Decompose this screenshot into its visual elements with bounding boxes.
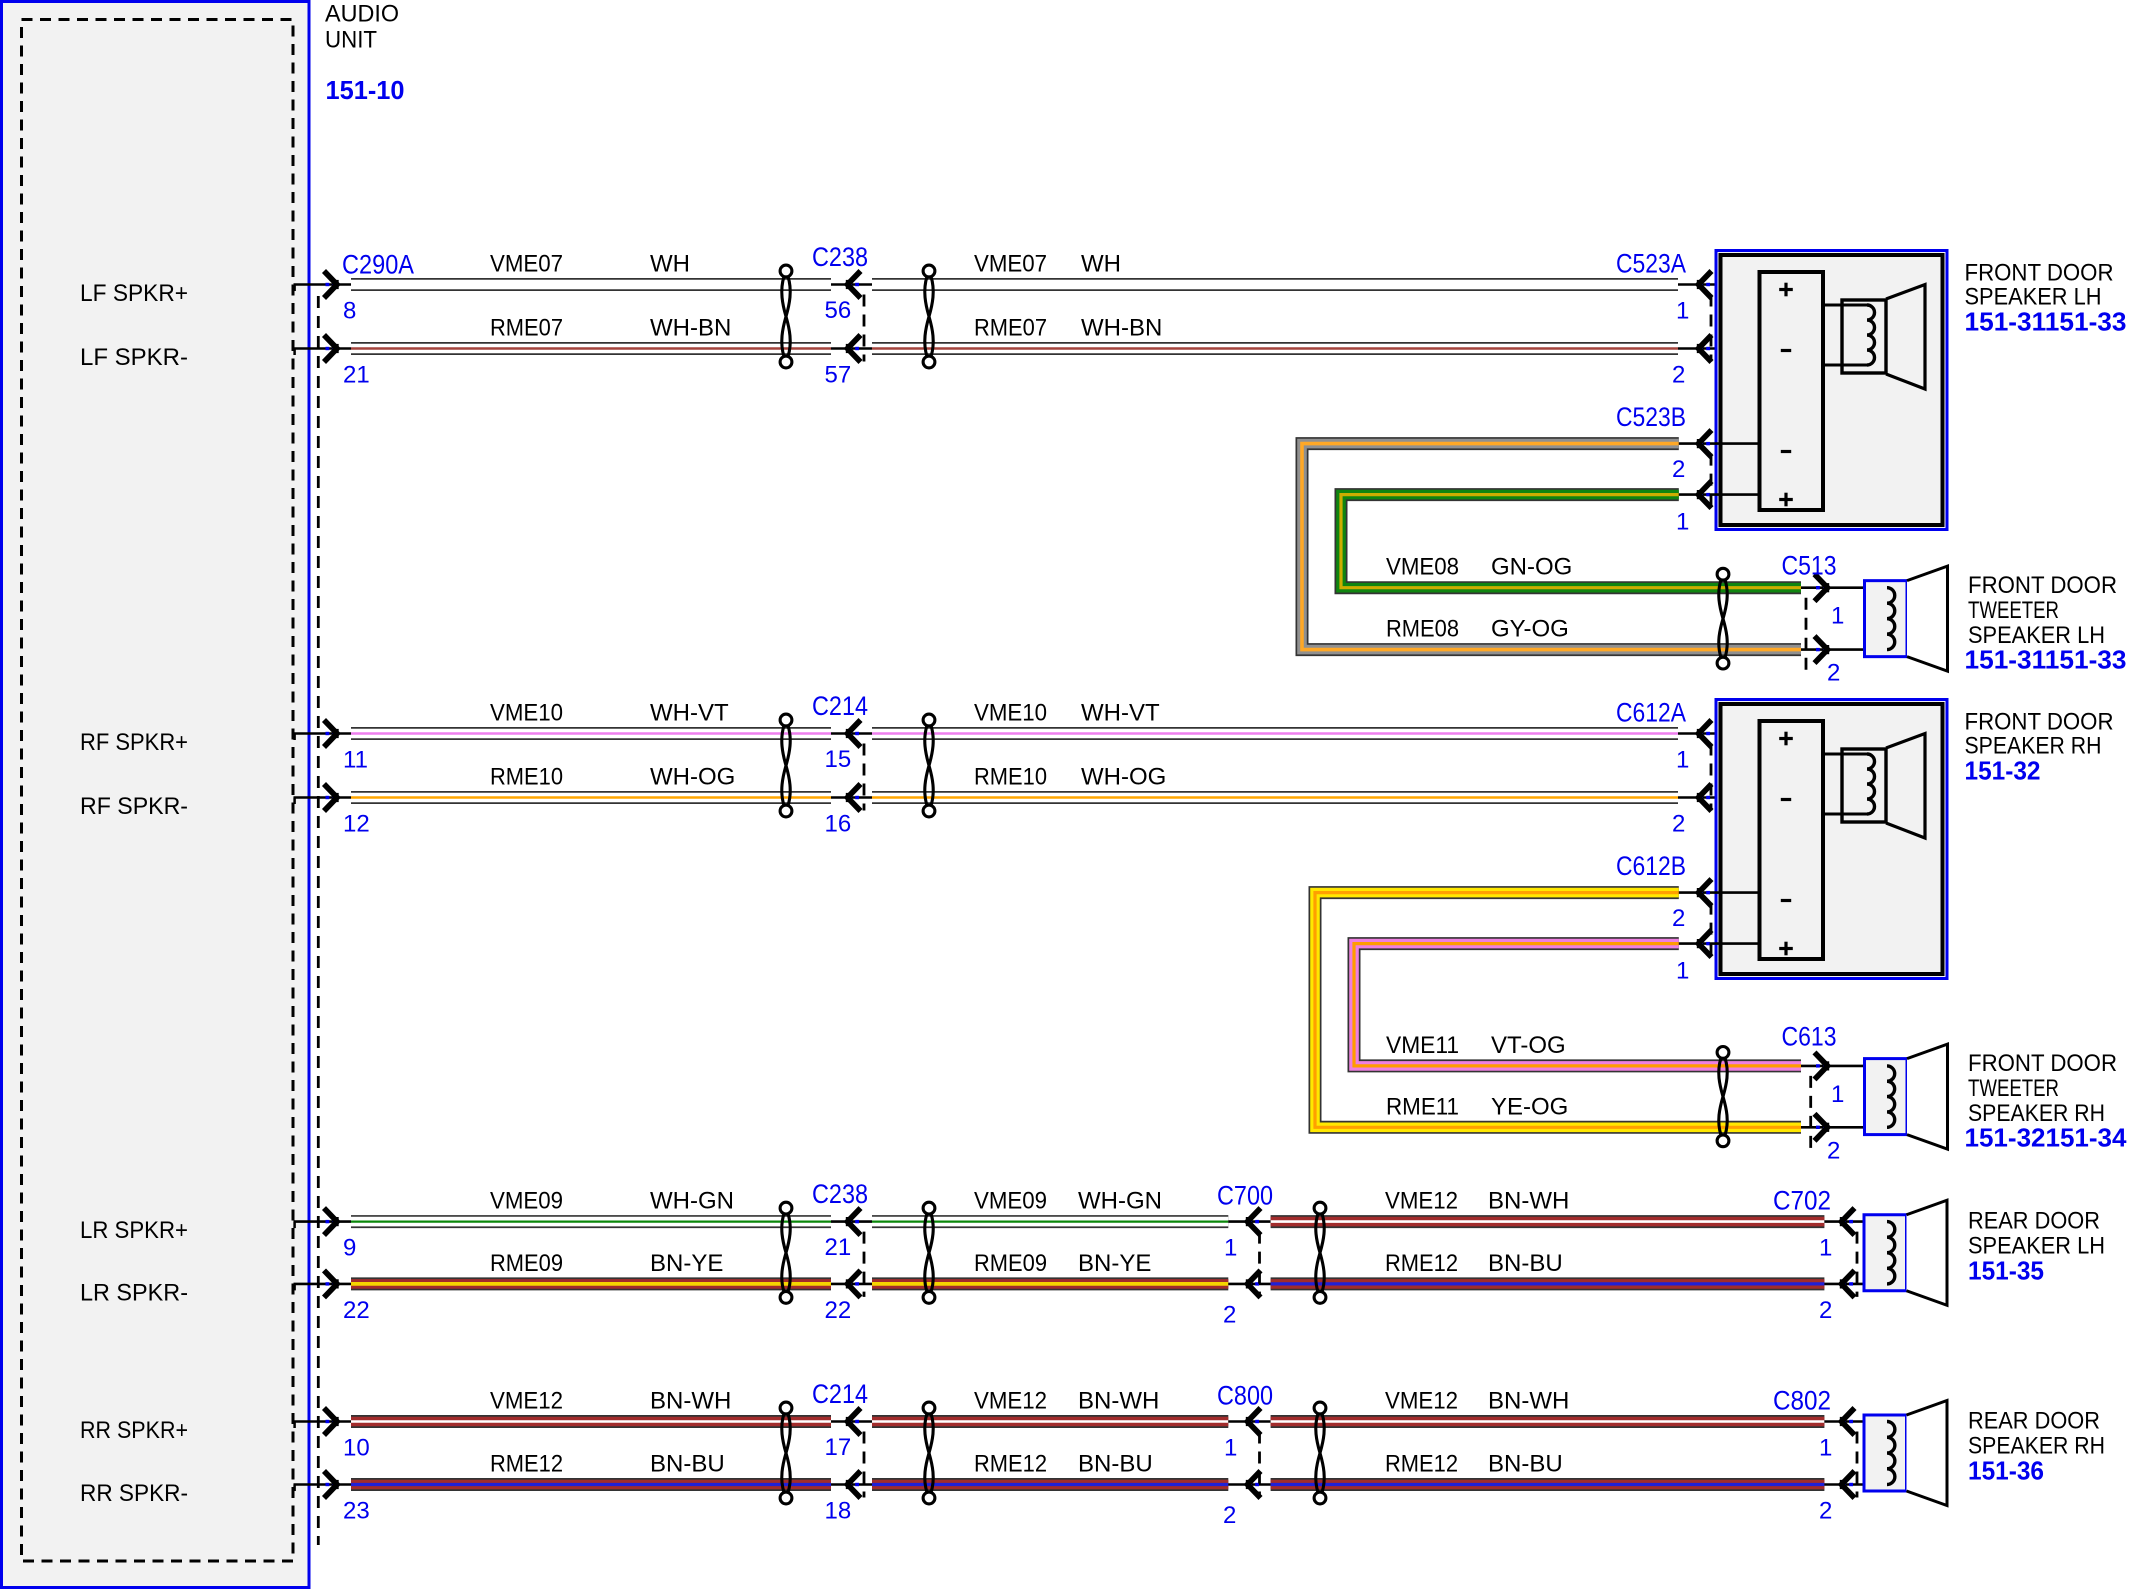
svg-text:C523A: C523A <box>1616 249 1686 279</box>
speaker LH horn <box>1886 285 1925 390</box>
svg-text:RME12: RME12 <box>490 1451 563 1478</box>
label RME10 WH-OG <box>490 764 735 791</box>
wire VME12 BN-WH seg3 <box>1271 1415 1825 1428</box>
connector C802 pin 2 <box>1824 1483 1887 1486</box>
svg-text:BN-WH: BN-WH <box>650 1388 731 1415</box>
terminal + (C523B pin 1) <box>1779 947 1793 950</box>
svg-text:LR SPKR+: LR SPKR+ <box>80 1217 188 1244</box>
svg-text:WH: WH <box>1081 251 1121 278</box>
svg-text:1: 1 <box>1819 1235 1832 1262</box>
twisted pair <box>780 265 792 277</box>
wire stub pin 11 <box>294 732 353 735</box>
svg-text:VME12: VME12 <box>490 1388 563 1415</box>
wire VME12 BN-WH seg1 <box>351 1415 831 1428</box>
speaker RH horn <box>1886 734 1925 839</box>
wire RME10 WH-OG seg1 <box>351 791 831 804</box>
svg-text:22: 22 <box>825 1297 852 1324</box>
wire VME12 BN-WH seg2 <box>872 1415 1228 1428</box>
connector C523A pin 2 <box>1678 347 1760 350</box>
svg-text:VME12: VME12 <box>974 1388 1047 1415</box>
connector C290A pin 23 arrow <box>326 1483 330 1486</box>
svg-text:TWEETER: TWEETER <box>1968 597 2059 624</box>
svg-text:1: 1 <box>1676 747 1689 774</box>
svg-text:2: 2 <box>1672 811 1685 838</box>
connector C513 dashed line <box>1805 598 1808 671</box>
svg-text:RME08: RME08 <box>1386 616 1459 643</box>
svg-text:VME12: VME12 <box>1385 1388 1458 1415</box>
label FRONT DOOR SPEAKER LH <box>1965 260 2114 311</box>
speaker RH terminal block <box>1760 721 1824 959</box>
label REAR DOOR SPEAKER LH <box>1968 1208 2105 1260</box>
svg-text:2: 2 <box>1672 456 1685 483</box>
label RME12 BN-BU seg3 <box>1385 1451 1563 1478</box>
svg-text:WH: WH <box>650 251 690 278</box>
wire RME07 WH-BN seg1 <box>351 342 831 355</box>
svg-text:1: 1 <box>1224 1235 1237 1262</box>
svg-text:BN-BU: BN-BU <box>1078 1451 1153 1478</box>
connector C612A pin 2 <box>1678 796 1760 799</box>
svg-text:VME09: VME09 <box>974 1188 1047 1215</box>
svg-text:1: 1 <box>1819 1435 1832 1462</box>
connector C214 pin 17 <box>831 1420 872 1423</box>
svg-text:FRONT DOOR: FRONT DOOR <box>1965 260 2114 287</box>
svg-text:RME12: RME12 <box>974 1451 1047 1478</box>
svg-text:C802: C802 <box>1773 1386 1831 1416</box>
label VME10 WH-VT <box>490 700 729 727</box>
svg-text:BN-BU: BN-BU <box>1488 1250 1563 1277</box>
svg-text:VME12: VME12 <box>1385 1188 1458 1215</box>
svg-text:FRONT DOOR: FRONT DOOR <box>1968 1050 2117 1077</box>
wire RME12 BN-BU seg3 <box>1271 1277 1825 1290</box>
twisted pair <box>923 714 935 726</box>
svg-text:WH-BN: WH-BN <box>650 315 731 342</box>
svg-text:UNIT: UNIT <box>325 27 377 54</box>
connector C612B pin 1 <box>1679 942 1760 945</box>
wire RME12 BN-BU seg2 <box>872 1478 1228 1491</box>
rear door speaker RH symbol <box>1864 1415 1907 1491</box>
connector C238 pin 21 <box>831 1220 872 1223</box>
svg-text:FRONT DOOR: FRONT DOOR <box>1968 572 2117 599</box>
svg-text:1: 1 <box>1676 509 1689 536</box>
connector C290A pin 21 arrow <box>326 347 330 350</box>
twisted pair <box>1717 568 1729 580</box>
svg-text:C238: C238 <box>812 242 868 272</box>
label VME09 WH-GN <box>490 1188 734 1215</box>
svg-text:WH-OG: WH-OG <box>1081 764 1166 791</box>
svg-text:C513: C513 <box>1782 551 1837 581</box>
svg-text:2: 2 <box>1672 362 1685 389</box>
svg-text:VME07: VME07 <box>974 251 1047 278</box>
svg-text:REAR DOOR: REAR DOOR <box>1968 1208 2100 1235</box>
svg-text:VME09: VME09 <box>490 1188 563 1215</box>
connector C238 dashed line <box>863 1232 866 1297</box>
svg-text:C523B: C523B <box>1616 402 1686 432</box>
wire VME11 VT-OG (inner U run) <box>1354 944 1801 1066</box>
connector C702 pin 2 <box>1824 1283 1887 1286</box>
svg-text:LF SPKR+: LF SPKR+ <box>80 280 188 307</box>
connector C238 pin 57 <box>831 347 872 350</box>
svg-text:RME07: RME07 <box>490 315 563 342</box>
svg-text:17: 17 <box>825 1434 852 1461</box>
svg-text:151-32: 151-32 <box>1965 756 2041 786</box>
label REAR DOOR SPEAKER RH <box>1968 1408 2105 1460</box>
connector C214 pin 18 <box>831 1483 872 1486</box>
label VME12 BN-WH seg2 <box>974 1388 1159 1415</box>
label RME09 BN-YE seg2 <box>974 1250 1151 1277</box>
front door speaker RH box <box>1716 700 1947 979</box>
terminal - (C523B pin 2) <box>1781 450 1791 453</box>
svg-text:BN-BU: BN-BU <box>650 1451 725 1478</box>
svg-text:2: 2 <box>1827 660 1840 687</box>
svg-text:YE-OG: YE-OG <box>1491 1093 1568 1120</box>
svg-text:11: 11 <box>343 747 368 774</box>
svg-text:151-31151-33: 151-31151-33 <box>1965 307 2127 337</box>
svg-text:151-10: 151-10 <box>326 75 405 105</box>
svg-text:WH-OG: WH-OG <box>650 764 735 791</box>
svg-text:BN-BU: BN-BU <box>1488 1451 1563 1478</box>
label FRONT DOOR SPEAKER RH <box>1965 709 2114 760</box>
svg-text:BN-WH: BN-WH <box>1488 1388 1569 1415</box>
connector C290A pin 22 arrow <box>326 1282 330 1285</box>
svg-text:C800: C800 <box>1217 1381 1273 1411</box>
svg-text:RME10: RME10 <box>974 764 1047 791</box>
svg-text:FRONT DOOR: FRONT DOOR <box>1965 709 2114 736</box>
label RME11 YE-OG <box>1386 1093 1568 1120</box>
speaker RH voice coil <box>1823 749 1886 822</box>
connector C800 pin 2 <box>1228 1483 1270 1486</box>
twisted pair <box>1717 1047 1729 1059</box>
label AUDIO UNIT <box>325 1 399 54</box>
connector C513 pin 2 <box>1801 648 1887 651</box>
svg-text:RR SPKR+: RR SPKR+ <box>80 1417 188 1444</box>
svg-text:C214: C214 <box>812 691 868 721</box>
terminal - (pin 2) <box>1781 349 1791 352</box>
connector C523B dashed line <box>1710 454 1713 508</box>
label VME08 GN-OG <box>1386 554 1572 581</box>
svg-text:RF SPKR-: RF SPKR- <box>80 793 188 820</box>
wire stub pin 9 <box>294 1220 353 1223</box>
wire RME12 BN-BU seg3 <box>1271 1478 1825 1491</box>
terminal - (pin 2) <box>1781 798 1791 801</box>
svg-text:C612B: C612B <box>1616 851 1686 881</box>
svg-text:57: 57 <box>825 362 852 389</box>
svg-text:C612A: C612A <box>1616 698 1686 728</box>
connector C290A pin 9 arrow <box>326 1220 330 1223</box>
svg-text:REAR DOOR: REAR DOOR <box>1968 1408 2100 1435</box>
twisted pair <box>923 265 935 277</box>
wire RME10 WH-OG seg2 <box>872 791 1678 804</box>
wire stub pin 12 <box>294 796 353 799</box>
svg-text:VME10: VME10 <box>490 700 563 727</box>
connector C612A pin 1 <box>1678 732 1760 735</box>
terminal + (C523B pin 1) <box>1779 498 1793 501</box>
svg-text:18: 18 <box>825 1498 852 1525</box>
label VME12 BN-WH seg3 <box>1385 1188 1569 1215</box>
connector C802 pin 1 <box>1824 1420 1887 1423</box>
svg-text:RME09: RME09 <box>490 1250 563 1277</box>
label VME12 BN-WH <box>490 1388 731 1415</box>
connector C612B pin 2 <box>1679 891 1760 894</box>
front door tweeter speaker LH symbol <box>1865 581 1908 657</box>
front door tweeter speaker RH symbol <box>1865 1059 1908 1135</box>
wire VME09 WH-GN seg2 <box>872 1215 1228 1228</box>
label RME12 BN-BU <box>490 1451 725 1478</box>
svg-text:WH-GN: WH-GN <box>650 1188 734 1215</box>
svg-text:2: 2 <box>1223 1301 1236 1328</box>
svg-text:WH-VT: WH-VT <box>1081 700 1160 727</box>
svg-text:151-35: 151-35 <box>1968 1256 2044 1286</box>
label VME07 WH <box>490 251 690 278</box>
svg-text:15: 15 <box>825 746 852 773</box>
svg-text:1: 1 <box>1224 1435 1237 1462</box>
terminal + (pin 1) <box>1779 737 1793 740</box>
svg-text:151-32151-34: 151-32151-34 <box>1965 1123 2128 1153</box>
svg-text:WH-BN: WH-BN <box>1081 315 1162 342</box>
wire stub pin 8 <box>294 283 353 286</box>
wire stub pin 22 <box>294 1283 353 1286</box>
connector C238 pin 22 <box>831 1283 872 1286</box>
connector C238 pin 56 <box>831 283 872 286</box>
wire RME09 BN-YE seg2 <box>872 1277 1228 1290</box>
svg-text:C214: C214 <box>812 1379 868 1409</box>
svg-text:BN-WH: BN-WH <box>1078 1388 1159 1415</box>
wire stub pin 10 <box>294 1420 353 1423</box>
label RME07 WH-BN seg2 <box>974 315 1162 342</box>
connector C612A dashed line <box>1710 744 1713 811</box>
wire RME09 BN-YE seg1 <box>351 1277 831 1290</box>
svg-text:1: 1 <box>1676 298 1689 325</box>
label RME10 WH-OG seg2 <box>974 764 1166 791</box>
svg-text:21: 21 <box>343 362 370 389</box>
twisted pair <box>923 1402 935 1414</box>
svg-text:GN-OG: GN-OG <box>1491 554 1572 581</box>
svg-text:22: 22 <box>343 1297 370 1324</box>
connector C802 dashed line <box>1856 1432 1859 1498</box>
front door speaker LH box <box>1716 251 1947 530</box>
connector C214 dashed line <box>863 744 866 811</box>
rear door speaker LH symbol <box>1864 1215 1907 1291</box>
connector C523A pin 1 <box>1678 283 1760 286</box>
label VME11 VT-OG <box>1386 1032 1566 1059</box>
svg-text:C702: C702 <box>1773 1186 1831 1216</box>
wire VME09 WH-GN seg1 <box>351 1215 831 1228</box>
svg-text:C238: C238 <box>812 1179 868 1209</box>
wire VME10 WH-VT seg1 <box>351 727 831 740</box>
svg-text:151-31151-33: 151-31151-33 <box>1965 645 2127 675</box>
wire VME12 BN-WH seg3 <box>1271 1215 1825 1228</box>
twisted pair <box>923 1202 935 1214</box>
connector C523B pin 1 <box>1679 493 1760 496</box>
twisted pair <box>780 714 792 726</box>
label VME10 WH-VT seg2 <box>974 700 1160 727</box>
label RME08 GY-OG <box>1386 616 1569 643</box>
label RME12 BN-BU seg2 <box>974 1451 1153 1478</box>
svg-text:BN-YE: BN-YE <box>650 1250 723 1277</box>
svg-text:AUDIO: AUDIO <box>325 1 399 28</box>
connector C290A pin 12 arrow <box>326 796 330 799</box>
connector C290A pin 8 arrow <box>326 283 330 286</box>
connector C238 dashed line <box>863 295 866 362</box>
svg-text:21: 21 <box>825 1234 852 1261</box>
twisted pair <box>780 1402 792 1414</box>
label FRONT DOOR TWEETER SPEAKER RH <box>1968 1050 2117 1127</box>
wire VME07 WH seg1 <box>351 278 831 291</box>
wire RME07 WH-BN seg2 <box>872 342 1678 355</box>
label VME12 BN-WH seg3 <box>1385 1388 1569 1415</box>
svg-text:VT-OG: VT-OG <box>1491 1032 1566 1059</box>
svg-text:C700: C700 <box>1217 1181 1273 1211</box>
connector C513 pin 1 <box>1801 586 1887 589</box>
connector C702 dashed line <box>1856 1232 1859 1297</box>
svg-text:GY-OG: GY-OG <box>1491 616 1569 643</box>
svg-text:RME12: RME12 <box>1385 1451 1458 1478</box>
svg-text:BN-YE: BN-YE <box>1078 1250 1151 1277</box>
connector C290A pin 10 arrow <box>326 1420 330 1423</box>
connector C290A pin 11 arrow <box>326 732 330 735</box>
svg-text:RR SPKR-: RR SPKR- <box>80 1480 188 1507</box>
svg-text:WH-GN: WH-GN <box>1078 1188 1162 1215</box>
connector C700 pin 2 <box>1228 1283 1270 1286</box>
wire RME12 BN-BU seg1 <box>351 1478 831 1491</box>
twisted pair <box>1314 1202 1326 1214</box>
svg-text:VME07: VME07 <box>490 251 563 278</box>
svg-text:1: 1 <box>1831 1081 1844 1108</box>
label VME09 WH-GN seg2 <box>974 1188 1162 1215</box>
svg-text:C290A: C290A <box>342 250 414 280</box>
svg-text:VME08: VME08 <box>1386 554 1459 581</box>
twisted pair <box>780 1202 792 1214</box>
svg-text:RME09: RME09 <box>974 1250 1047 1277</box>
svg-text:RME11: RME11 <box>1386 1093 1459 1120</box>
wire RME11 YE-OG (outer U run) <box>1315 893 1801 1128</box>
connector C800 dashed line <box>1258 1432 1261 1498</box>
connector C523A dashed line <box>1710 295 1713 362</box>
connector C613 pin 2 <box>1801 1126 1887 1129</box>
svg-text:VME11: VME11 <box>1386 1032 1459 1059</box>
svg-text:1: 1 <box>1676 958 1689 985</box>
connector C700 dashed line <box>1258 1232 1261 1297</box>
wire VME07 WH seg2 <box>872 278 1678 291</box>
label RME07 WH-BN <box>490 315 731 342</box>
connector C290A dashed line <box>317 296 320 1545</box>
speaker LH terminal block <box>1760 272 1824 510</box>
svg-text:RME12: RME12 <box>1385 1250 1458 1277</box>
connector C523B pin 2 <box>1679 442 1760 445</box>
svg-text:LF SPKR-: LF SPKR- <box>80 344 188 371</box>
svg-text:1: 1 <box>1831 603 1844 630</box>
label RME09 BN-YE <box>490 1250 723 1277</box>
svg-text:2: 2 <box>1819 1297 1832 1324</box>
svg-text:9: 9 <box>343 1235 356 1262</box>
speaker LH voice coil <box>1823 300 1886 373</box>
wire RME08 GY-OG (outer U run) <box>1302 444 1801 650</box>
svg-text:BN-WH: BN-WH <box>1488 1188 1569 1215</box>
svg-text:LR SPKR-: LR SPKR- <box>80 1279 188 1306</box>
svg-text:RF SPKR+: RF SPKR+ <box>80 729 188 756</box>
connector C214 dashed line <box>863 1432 866 1498</box>
audio unit dashed outline <box>22 20 294 1562</box>
wire VME10 WH-VT seg2 <box>872 727 1678 740</box>
connector C214 pin 15 <box>831 732 872 735</box>
svg-text:2: 2 <box>1223 1502 1236 1529</box>
wire VME08 GN-OG (inner U run) <box>1341 495 1801 588</box>
connector C613 dashed line <box>1809 1076 1812 1148</box>
svg-text:WH-VT: WH-VT <box>650 700 729 727</box>
svg-text:C613: C613 <box>1782 1021 1837 1051</box>
wire stub pin 21 <box>294 347 353 350</box>
wire stub pin 23 <box>294 1483 353 1486</box>
label RME12 BN-BU seg3 <box>1385 1250 1563 1277</box>
svg-text:2: 2 <box>1672 905 1685 932</box>
connector C702 pin 1 <box>1824 1220 1887 1223</box>
connector C700 pin 1 <box>1228 1220 1270 1223</box>
label FRONT DOOR TWEETER SPEAKER LH <box>1968 572 2117 649</box>
audio unit box <box>2 2 310 1588</box>
label VME07 WH seg2 <box>974 251 1121 278</box>
svg-text:23: 23 <box>343 1498 370 1525</box>
svg-text:8: 8 <box>343 298 356 325</box>
svg-text:16: 16 <box>825 811 852 838</box>
svg-text:RME07: RME07 <box>974 315 1047 342</box>
svg-text:12: 12 <box>343 811 370 838</box>
twisted pair <box>1314 1402 1326 1414</box>
terminal - (C523B pin 2) <box>1781 899 1791 902</box>
svg-text:TWEETER: TWEETER <box>1968 1075 2059 1102</box>
svg-text:56: 56 <box>825 297 852 324</box>
svg-text:2: 2 <box>1827 1137 1840 1164</box>
svg-text:VME10: VME10 <box>974 700 1047 727</box>
svg-text:RME10: RME10 <box>490 764 563 791</box>
connector C613 pin 1 <box>1801 1065 1887 1068</box>
connector C214 pin 16 <box>831 796 872 799</box>
connector C800 pin 1 <box>1228 1420 1270 1423</box>
svg-text:2: 2 <box>1819 1498 1832 1525</box>
terminal + (pin 1) <box>1779 288 1793 291</box>
svg-text:151-36: 151-36 <box>1968 1456 2044 1486</box>
connector C612B dashed line <box>1710 903 1713 957</box>
svg-text:10: 10 <box>343 1435 370 1462</box>
